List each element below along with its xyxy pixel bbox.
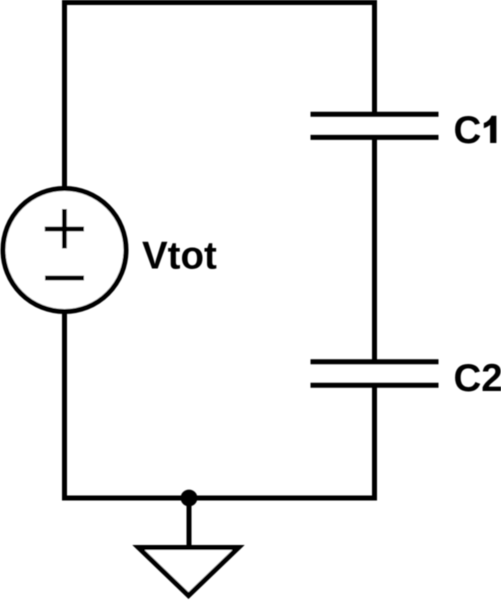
wire between C1 and C2 [372, 140, 377, 361]
ground stub wire [187, 498, 192, 548]
wire bottom loop: right vertical below C2 + bottom horizontal + left vertical up to source [65, 312, 375, 498]
voltage source Vtot (circle) [3, 189, 126, 312]
label C1 digit 1 (drawn glyph) [484, 116, 497, 143]
ground symbol [139, 548, 239, 596]
junction dot [181, 490, 198, 507]
svg-text:C: C [454, 109, 482, 152]
svg-text:Vtot: Vtot [142, 235, 217, 278]
capacitor C1 [311, 114, 439, 137]
minus sign [45, 276, 84, 281]
plus sign [45, 209, 84, 249]
svg-text:C2: C2 [454, 357, 501, 400]
wire top loop: left vertical + top horizontal + right vertical down to C1 [65, 3, 375, 189]
capacitor C2 [311, 362, 439, 385]
